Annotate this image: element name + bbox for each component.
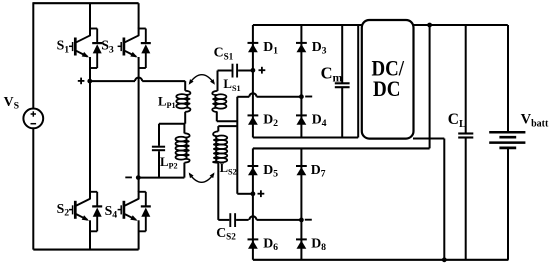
wire S1 collector from top rail [89,3,91,28]
coupling arrow bottom (LP2-LS2) [189,174,213,183]
wire rectifier1 bottom rail [253,136,358,138]
wire junction to series capacitor [159,123,185,125]
diode D2 [248,114,259,116]
wire top rail right section [253,24,508,26]
capacitor Cm [335,82,350,84]
wire rectifier2 rail up to top rail [429,25,431,148]
wire battery top lead [507,25,509,131]
transistor S2 IGBT symbol [89,191,91,199]
wire rectifier2 leg2 [300,148,302,259]
diode D1 [248,42,259,44]
wire secondary mid vertical [236,97,238,194]
capacitor CL [458,132,473,134]
diode D8 [296,238,307,240]
diode D4 [296,114,307,116]
wire + node to LP1 (left part) [90,80,135,82]
wire S4 emitter to bottom rail [138,220,140,249]
wire LS2 bottom lead [217,163,219,220]
node + rectifier1 [251,68,256,73]
wire LS2 top lead [218,125,237,127]
inductor LS2 [213,131,218,136]
wire S3 emitter to - node [138,57,140,178]
antiparallel diode of S2 [96,192,98,206]
wire CS2 to - node with hop over leg1 [249,216,256,220]
node - (inverter output negative) [136,175,141,180]
wire + node to LP1 (right part) [142,80,185,82]
diode D3 [296,42,307,44]
wire capacitor bottom to - wire [158,151,160,177]
wire S1 emitter to + node [89,57,91,81]
wire S4 collector from - node [138,178,140,192]
wire S2 collector from + node [89,81,91,192]
diode D7 [296,165,307,167]
inductor LS1 [212,91,217,95]
node + (inverter output positive) [87,79,92,84]
wire bottom rail of inverter [33,249,138,251]
capacitor CS1 [218,70,232,72]
wire CL top lead [465,25,467,133]
wire top rail of inverter [33,2,138,4]
wire battery bottom lead [507,149,509,260]
wire LP1 bottom to junction [184,112,186,124]
voltage source VS [23,109,43,129]
wire DC-DC input vertical [357,25,359,138]
wire hop over S3-S4 leg [135,78,142,82]
antiparallel diode of S3 [145,29,147,43]
block DC/DC converter [362,20,414,139]
wire rectifier2 top rail [253,147,430,149]
wire rectifier1 leg2 [300,25,302,138]
coupling arrow top (LP1-LS1) [189,75,214,84]
wire LP2 bottom to - node [183,163,185,178]
wire Vs left leg lower [32,128,34,249]
transistor S4 IGBT symbol [138,191,140,199]
node - rectifier1 [299,94,304,99]
diode D5 [248,165,259,167]
inductor LP2 [184,133,189,137]
wire rectifier2 leg1 [252,148,254,259]
inductor LP1 [185,91,190,95]
wire S2 emitter to bottom rail [89,220,91,249]
wire DC-DC output negative [413,138,444,140]
battery Vbatt [489,131,525,134]
wire mid tap to - node with hop over leg1 [237,96,249,98]
wire bottom rail right section [253,259,509,261]
wire Cm bottom lead [341,88,343,138]
wire CL bottom lead [465,138,467,260]
wire Vs left leg upper [32,2,34,108]
wire LS1 top lead [217,71,219,91]
diode D6 [248,238,259,240]
capacitor primary series (unlabeled) [152,146,165,148]
node + rectifier2 [251,191,256,196]
wire Cm top lead [341,25,343,83]
wire rectifier1 leg1 [252,25,254,138]
antiparallel diode of S1 [96,29,98,43]
wire LS1 bottom to mid vertical [216,112,218,121]
transistor S3 IGBT symbol [138,28,140,36]
wire S3 collector from top rail [138,3,140,28]
transistor S1 IGBT symbol [89,28,91,36]
node junction top rail [427,23,432,28]
wire LP2 top lead [183,124,185,134]
antiparallel diode of S4 [145,192,147,206]
node - rectifier2 [299,218,304,223]
node junction DC-DC negative on bottom rail [442,257,447,262]
svg-text:DC: DC [373,76,401,101]
capacitor CS2 [218,219,229,221]
